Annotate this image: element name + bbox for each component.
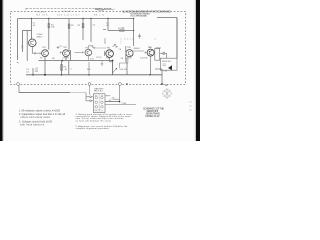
- wire TR4 emitter down: [110, 57, 113, 61]
- node dot x150 y74.8: [149, 74, 150, 75]
- wire pack out upper: [113, 98, 120, 100]
- wire drop x33: [32, 68, 34, 75]
- svg-text:2N412: 2N412: [37, 37, 44, 39]
- wire right riser: [176, 18, 178, 59]
- wire TR3 collector up: [88, 46, 93, 50]
- wire pack out common long: [105, 104, 136, 106]
- capacitor C16 to ground: [101, 61, 103, 67]
- wire drop x112.6: [112, 61, 114, 75]
- wire TR2 collector: [69, 51, 70, 61]
- wire drop x61.5: [61, 61, 63, 75]
- wire TR5 base vertical: [125, 46, 127, 62]
- wire to TR3 base: [75, 51, 82, 53]
- wire T1 emitter drop: [31, 47, 33, 54]
- wire drop x49: [48, 19, 50, 50]
- IF transformer 1 leads: [103, 30, 106, 45]
- capacitor at TR3 base: [81, 51, 84, 53]
- wire TR2 emitter to mid bus: [65, 57, 67, 61]
- node dot pack out: [119, 101, 121, 103]
- wire T1 to TR1 base: [32, 52, 39, 54]
- svg-text:1. All resistance values in oh: 1. All resistance values in ohms, K=1000: [19, 110, 61, 113]
- lower return wire: [26, 74, 162, 76]
- battery pack divider: [98, 95, 100, 112]
- chassis dashed border frame: [11, 12, 186, 85]
- svg-text:others mmf unless noted.: others mmf unless noted.: [21, 116, 51, 119]
- svg-text:2N408: 2N408: [134, 48, 141, 50]
- wire drop x127: [126, 63, 128, 75]
- svg-text:2. Capacitance values less tha: 2. Capacitance values less than 1 in mfd…: [19, 113, 65, 116]
- node dot x162 frame: [161, 83, 163, 85]
- mid bus wire: [39, 60, 113, 62]
- terminal circle x18 frame: [17, 83, 20, 86]
- film sprocket marks: [189, 102, 192, 110]
- svg-text:C9 50: C9 50: [96, 57, 102, 59]
- antenna coil winding 1: [21, 31, 23, 53]
- svg-text:MODEL 6X-10: MODEL 6X-10: [145, 115, 160, 118]
- resistor R9: [61, 65, 63, 71]
- wire terminal 120 drop: [119, 86, 121, 102]
- node dot mid bus x112.6: [112, 60, 114, 62]
- wire drop x108: [107, 19, 109, 31]
- wire drop x133.6: [133, 19, 135, 47]
- capacitor C6: [93, 47, 96, 49]
- resistor R1: [48, 24, 50, 28]
- transistor TR4: [106, 50, 114, 58]
- wire x17.6 coil tail: [17, 62, 19, 63]
- resistor R7 wire: [108, 30, 134, 32]
- svg-text:C15 (.1): C15 (.1): [57, 14, 69, 16]
- wire drop x45: [44, 61, 46, 74]
- wire drop x83: [82, 19, 84, 41]
- diode CR1: [113, 44, 116, 47]
- volume control arrow: [113, 68, 117, 72]
- wire TR1 emitter to mid bus: [44, 57, 46, 61]
- terminal circle x120 frame: [119, 83, 122, 86]
- output transformer T5: [155, 49, 160, 61]
- svg-text:VOL. CONTROL AT MAX.: VOL. CONTROL AT MAX.: [130, 14, 147, 17]
- capacitor at TR6 base: [144, 52, 147, 54]
- wire pin1 to pack: [92, 96, 94, 98]
- capacitor C4 drop: [90, 19, 92, 43]
- plug pin 1: [90, 96, 92, 98]
- node dot bus x48.8: [48, 18, 49, 19]
- film edge bar left: [0, 0, 3, 141]
- wire TR3 emitter to mid bus: [87, 56, 89, 61]
- battery cell 2: [101, 96, 104, 99]
- speaker cone: [168, 65, 172, 70]
- capacitor C14: [138, 34, 141, 39]
- wire drop to T1: [31, 19, 33, 40]
- wire y69 right: [155, 68, 162, 70]
- node dot lower x89: [88, 74, 90, 76]
- battery pack box: [93, 94, 105, 113]
- svg-text:6 x 1.5V: 6 x 1.5V: [94, 110, 101, 112]
- capacitor C12: [163, 52, 165, 54]
- battery cell 1: [95, 96, 98, 99]
- wire drop x69: [68, 19, 70, 50]
- speaker coil mark: [163, 64, 167, 66]
- capacitor C2: [57, 46, 60, 48]
- svg-text:PACK B-1: PACK B-1: [94, 90, 104, 93]
- svg-text:470 1K: 470 1K: [63, 58, 70, 60]
- svg-text:SPKR 4Ω: SPKR 4Ω: [162, 61, 171, 63]
- wire TR5 to TR6: [133, 50, 144, 52]
- antenna coil core blob: [22, 45, 23, 49]
- fold line tick: [26, 8, 27, 10]
- svg-text:R8 (.1): R8 (.1): [94, 14, 104, 16]
- transistor TR4 base line: [105, 51, 106, 56]
- node dot x133.6 y30.5: [133, 30, 134, 31]
- wire pack out top: [105, 95, 110, 97]
- node dot bus x83: [82, 18, 83, 19]
- node dot x127 frame: [126, 83, 128, 85]
- resistor R11 body: [126, 58, 128, 63]
- IF transformer 2 leads: [121, 38, 135, 44]
- oscillator coil winding: [26, 31, 28, 62]
- battery polarity marks: [95, 95, 103, 111]
- transistor TR5: [126, 50, 133, 57]
- transistor T1 oscillator: [29, 39, 37, 47]
- node tick x155: [155, 39, 156, 40]
- svg-text:FOLD A: FOLD A: [36, 10, 45, 13]
- B+ top bus wire: [18, 18, 134, 20]
- wire TR3 to TR4: [94, 47, 106, 49]
- wire left bus drop: [17, 19, 19, 61]
- svg-text:C7 4.7: C7 4.7: [71, 14, 81, 16]
- speaker box: [160, 58, 177, 70]
- node dot lower x61.5: [61, 74, 63, 76]
- transistor T1 internals: [31, 41, 34, 46]
- svg-text:VOL 5K: VOL 5K: [120, 69, 128, 71]
- pointer line to heading: [26, 8, 95, 10]
- transistor TR2: [63, 50, 70, 57]
- terminal circle x89.5 frame: [88, 83, 91, 86]
- resistor R3: [82, 24, 84, 28]
- svg-text:R4 47K: R4 47K: [37, 14, 49, 16]
- svg-text:SW: SW: [87, 69, 90, 71]
- svg-text:3. Voltages should hold ±10%: 3. Voltages should hold ±10%: [19, 120, 52, 123]
- node dot lower x33: [32, 74, 34, 76]
- node dot mid bus x62.4: [62, 60, 64, 62]
- svg-text:(top): (top): [98, 9, 104, 12]
- wire TR6 emitter drop: [150, 56, 152, 75]
- transistor TR3: [85, 49, 92, 56]
- wire battery feed drop: [86, 93, 90, 101]
- film edge bar right: [196, 0, 200, 141]
- wire battery feed faint tail: [70, 92, 86, 94]
- wire pin2 to pack: [92, 100, 94, 102]
- battery cell 3: [95, 101, 98, 104]
- resistor R7 body: [120, 30, 125, 32]
- tone control corner: [120, 63, 127, 68]
- svg-text:FOLD B: FOLD B: [63, 11, 72, 13]
- wire cap to speaker: [166, 53, 168, 58]
- node dot bus x133.6: [133, 18, 134, 19]
- wire battery feed: [19, 92, 70, 94]
- stamp tick: [165, 85, 168, 86]
- transistor TR1: [42, 50, 49, 57]
- wire terminal 89.5 drop: [89, 86, 91, 95]
- node dot bus x108: [107, 18, 108, 19]
- base network TR2: [60, 51, 63, 53]
- node dot bus x31.5: [31, 18, 32, 19]
- wire B+ feed right: [157, 17, 177, 19]
- capacitor C7: [115, 46, 118, 48]
- battery cell 5: [95, 106, 98, 109]
- node dot bus x91: [90, 18, 91, 19]
- transistor TR6 output: [147, 49, 154, 56]
- inspection stamp diamond: [162, 89, 172, 99]
- resistor tick on T1 wire: [35, 52, 36, 54]
- svg-text:with fresh batteries.: with fresh batteries.: [20, 123, 45, 126]
- wire pack out lower: [105, 101, 120, 103]
- svg-text:C10 100: C10 100: [140, 57, 148, 59]
- capacitor at TR1 base: [39, 52, 42, 54]
- wire antenna top: [22, 30, 31, 32]
- wire drop x162: [161, 69, 163, 84]
- svg-text:as heat will damage the seals.: as heat will damage the seals.: [76, 120, 112, 123]
- battery cell 4: [101, 101, 104, 104]
- svg-text:complete alignment procedure.: complete alignment procedure.: [76, 127, 110, 130]
- resistor R2: [68, 24, 70, 28]
- plug pin 2: [90, 100, 92, 102]
- wire battery riser: [18, 85, 20, 92]
- wire drop x68.8: [68, 61, 70, 75]
- terminal blob x45: [44, 74, 46, 76]
- wire drop x89: [88, 62, 90, 75]
- capacitor C11 symbol: [35, 70, 38, 71]
- wire transformer to cap: [160, 52, 167, 54]
- battery cell 6: [101, 106, 104, 109]
